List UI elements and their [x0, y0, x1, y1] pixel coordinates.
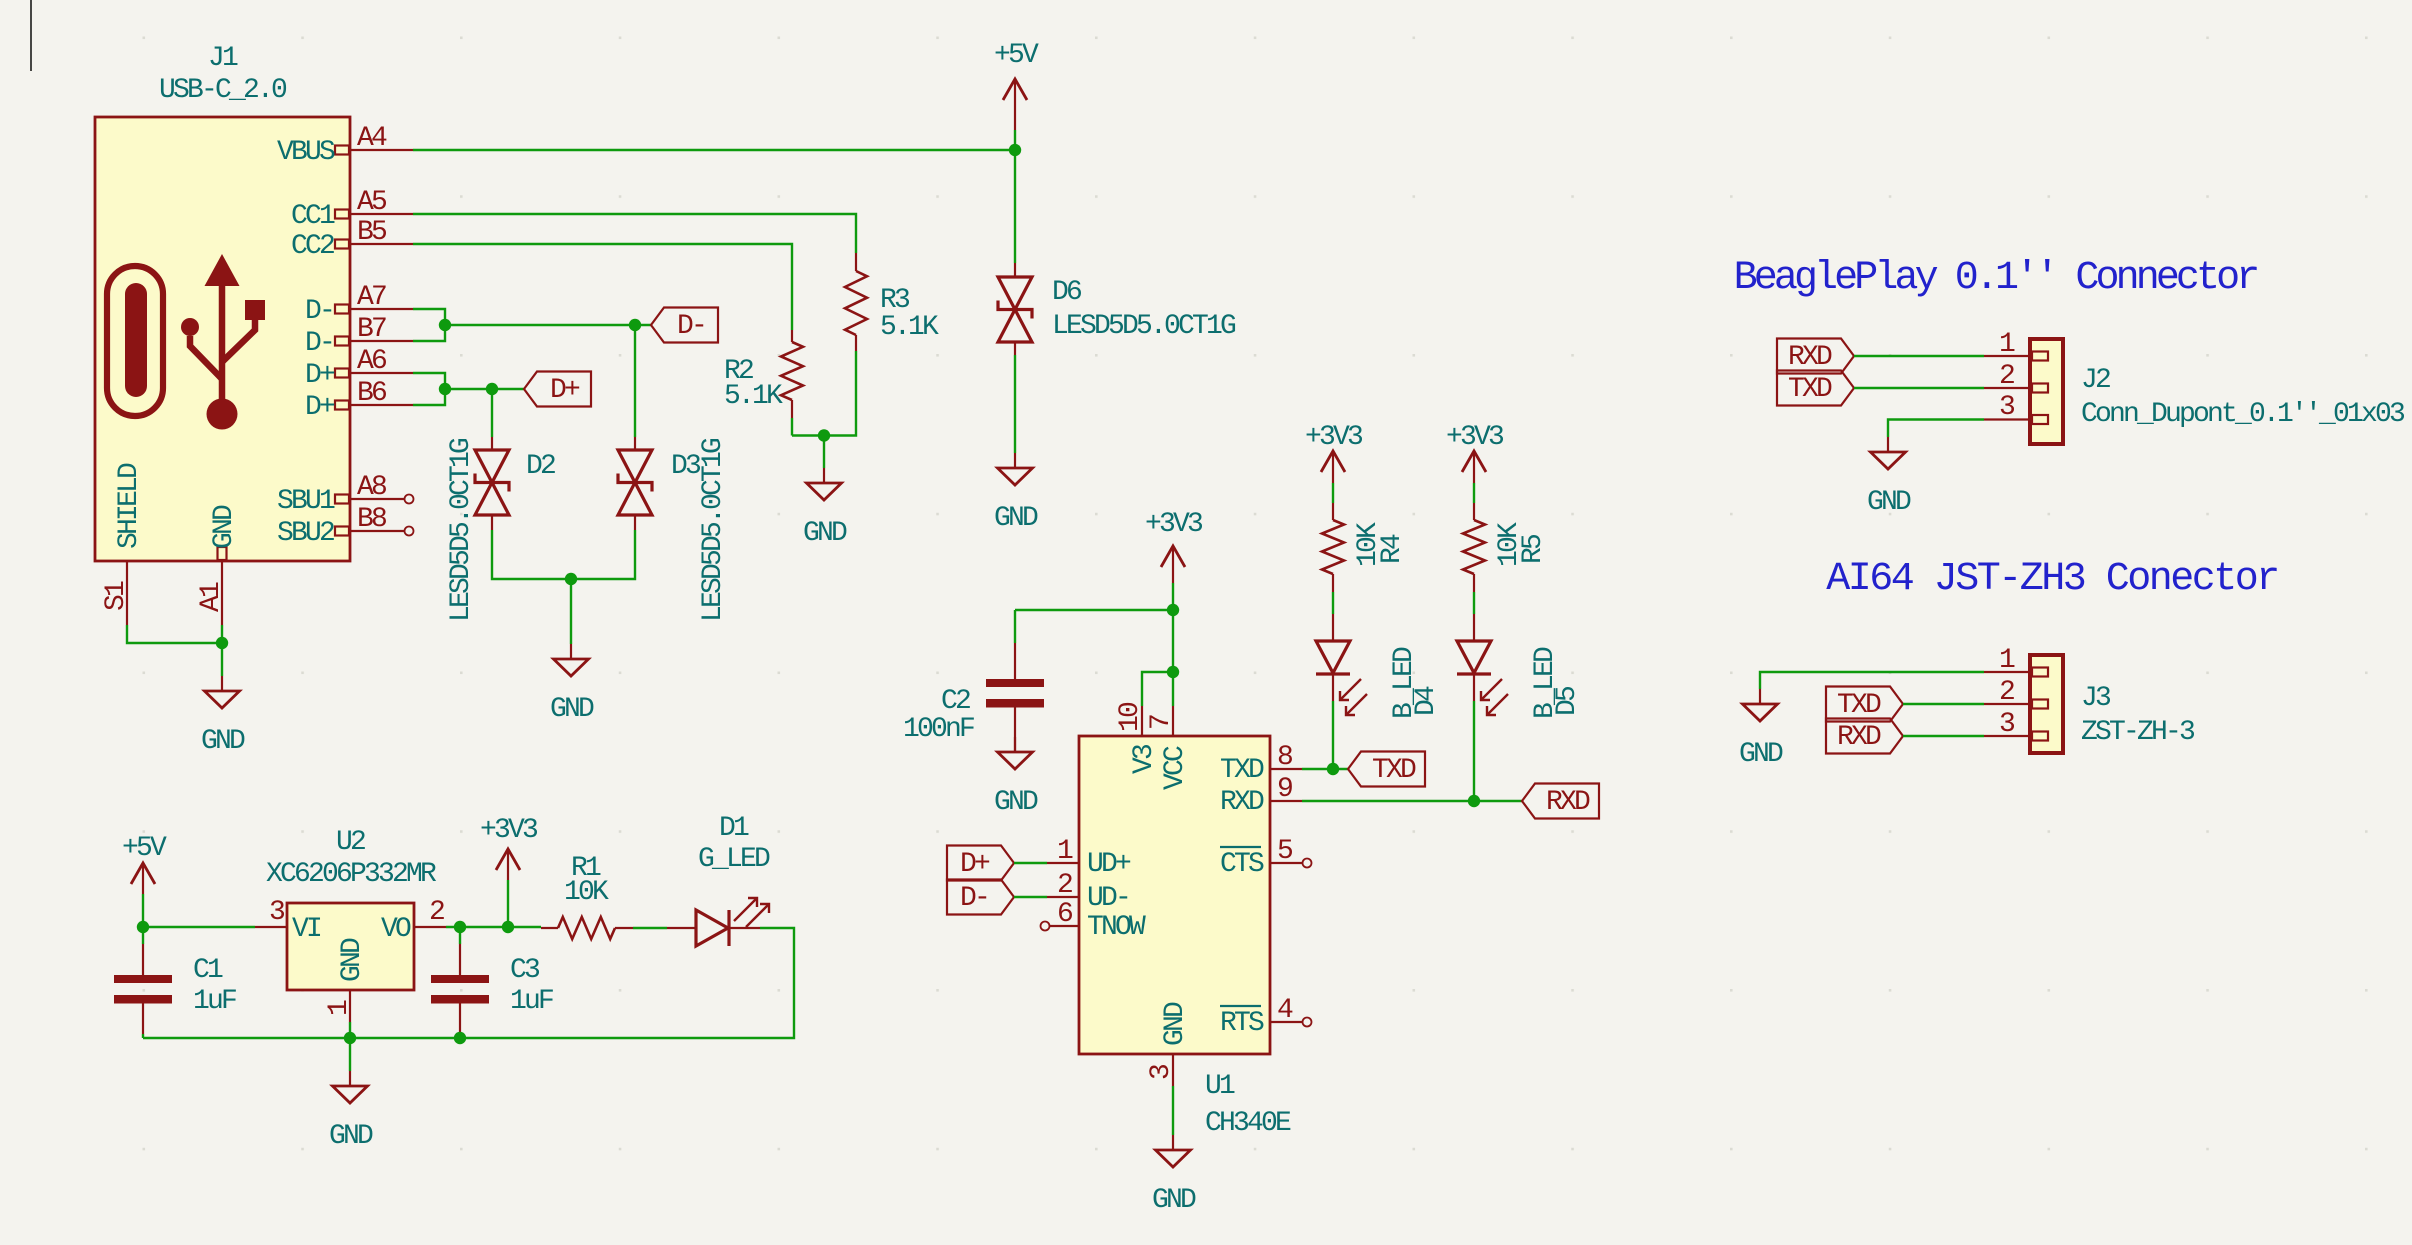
U1 pin 4 RTS (active low)	[1270, 1018, 1312, 1027]
svg-text:GND: GND	[201, 726, 245, 757]
J1 pin A1 GND	[218, 547, 227, 625]
svg-text:RXD: RXD	[1788, 342, 1832, 373]
svg-text:3: 3	[269, 897, 285, 928]
wire RXD pin to label	[1302, 800, 1522, 802]
resistor R1 10K	[541, 917, 633, 939]
svg-text:ZST-ZH-3: ZST-ZH-3	[2081, 717, 2195, 748]
wire TXD to J3 pin 2	[1903, 703, 1984, 705]
svg-text:+3V3: +3V3	[1446, 422, 1504, 453]
wire A6/B6 D+ merge	[413, 373, 445, 405]
svg-text:+5V: +5V	[122, 833, 167, 864]
J1 pin A6 D+	[335, 369, 413, 378]
svg-text:LESD5D5.0CT1G: LESD5D5.0CT1G	[698, 438, 729, 622]
global label TXD at J3	[1826, 687, 1903, 722]
junction C3 rail	[454, 1032, 466, 1044]
svg-text:VCC: VCC	[1160, 746, 1191, 790]
global label RXD at J2	[1777, 339, 1854, 374]
svg-text:BeaglePlay 0.1'' Connector: BeaglePlay 0.1'' Connector	[1734, 256, 2258, 301]
J2 pin 3	[1984, 415, 2048, 424]
svg-text:A6: A6	[357, 346, 386, 377]
resistor R4 10K	[1322, 503, 1344, 592]
wire +5V to D6	[1014, 150, 1016, 263]
U1 pin 5 CTS (active low)	[1270, 859, 1312, 868]
ground symbol below C2	[1014, 737, 1016, 752]
svg-text:2: 2	[429, 897, 444, 928]
svg-text:UD+: UD+	[1087, 849, 1131, 880]
ground symbol below J1	[221, 676, 223, 691]
capacitor C2	[986, 610, 1044, 752]
svg-text:GND: GND	[994, 503, 1038, 534]
junction TXD/D4	[1327, 763, 1339, 775]
global label D+ (left)	[524, 372, 591, 407]
svg-text:TXD: TXD	[1788, 374, 1832, 405]
junction D+ at D2	[486, 383, 498, 395]
U1 pin 10 V3	[1141, 706, 1143, 736]
J2 pin 2	[1984, 384, 2048, 393]
svg-text:D4: D4	[1411, 686, 1442, 716]
J1 pin B8 unconnected circle	[405, 527, 414, 536]
TVS diode D3	[618, 437, 652, 530]
wire RXD to J3 pin 3	[1903, 735, 1984, 737]
svg-text:2: 2	[1999, 361, 2014, 392]
svg-text:C2: C2	[941, 686, 970, 717]
junction R2/R3 ground	[818, 429, 830, 441]
power symbol +3V3 above R5	[1446, 422, 1504, 503]
svg-text:TXD: TXD	[1372, 755, 1416, 786]
U1 pin 9 RXD	[1270, 800, 1302, 802]
svg-text:R4: R4	[1377, 534, 1408, 564]
capacitor C3	[431, 927, 489, 1038]
svg-text:A1: A1	[196, 582, 227, 612]
svg-text:USB-C_2.0: USB-C_2.0	[159, 75, 287, 106]
junction at J1 ground	[216, 637, 228, 649]
USB logo icon	[107, 254, 265, 430]
J1 pin S1 SHIELD	[126, 561, 128, 625]
junction +3V3/C2	[1167, 604, 1179, 616]
junction +3V3 tap	[502, 921, 514, 933]
U2 pin 2 VO	[414, 926, 446, 928]
wire CC2 B5 to R2	[413, 244, 792, 330]
svg-text:3: 3	[1999, 392, 2015, 423]
wire D2 bottom to ground junction	[492, 530, 635, 579]
svg-text:D+: D+	[305, 360, 335, 391]
U1 pin 6 TNOW	[1041, 922, 1080, 931]
svg-text:GND: GND	[803, 518, 847, 549]
svg-text:D-: D-	[305, 328, 333, 359]
svg-text:VBUS: VBUS	[277, 137, 335, 168]
wire CC1 A5 to R3	[413, 214, 856, 253]
svg-text:SHIELD: SHIELD	[114, 463, 145, 549]
svg-text:D-: D-	[677, 311, 705, 342]
svg-text:CC2: CC2	[291, 231, 334, 262]
svg-text:1: 1	[1999, 645, 2015, 676]
J2 pin 1	[1984, 352, 2048, 361]
svg-text:GND: GND	[1739, 739, 1783, 770]
wire U2 GND to rail	[349, 1022, 351, 1071]
J1 pin A8 SBU1	[335, 495, 404, 504]
global label D- into U1	[947, 880, 1014, 915]
svg-text:D-: D-	[305, 296, 333, 327]
ground symbol below U2	[349, 1071, 351, 1086]
svg-text:+3V3: +3V3	[1145, 509, 1203, 540]
svg-text:GND: GND	[1160, 1002, 1191, 1046]
power symbol +5V at regulator input	[122, 833, 167, 927]
svg-text:1: 1	[1999, 329, 2015, 360]
TVS diode D6	[998, 263, 1032, 355]
U1 pin 3 GND	[1172, 1054, 1174, 1086]
svg-text:B8: B8	[357, 504, 386, 535]
svg-text:V3: V3	[1129, 744, 1160, 774]
global label RXD at U1	[1522, 784, 1599, 819]
U1 pin 1 UD+	[1047, 862, 1079, 864]
svg-text:5: 5	[1277, 836, 1293, 867]
resistor R2	[781, 330, 803, 418]
svg-text:1: 1	[1057, 836, 1073, 867]
svg-text:C1: C1	[193, 955, 223, 986]
svg-text:GND: GND	[329, 1121, 373, 1152]
svg-text:S1: S1	[101, 581, 132, 611]
resistor R5 10K	[1463, 503, 1485, 592]
svg-text:D2: D2	[526, 451, 555, 482]
ground symbol at J3	[1759, 689, 1761, 704]
svg-text:J2: J2	[2081, 365, 2110, 396]
J1 pin A7 D-	[335, 305, 413, 314]
ground symbol at J2	[1887, 437, 1889, 452]
svg-text:6: 6	[1057, 899, 1072, 930]
svg-text:10: 10	[1115, 702, 1146, 732]
svg-text:A7: A7	[357, 282, 386, 313]
wire junction to ground	[570, 579, 572, 644]
global label D+ into U1	[947, 846, 1014, 881]
wire RXD to J2 pin 1	[1854, 355, 1984, 357]
junction D- at D3	[629, 319, 641, 331]
ground symbol below U1	[1172, 1135, 1174, 1150]
svg-text:D1: D1	[719, 813, 749, 844]
svg-text:D6: D6	[1052, 277, 1081, 308]
svg-text:1: 1	[324, 1000, 355, 1016]
svg-text:+3V3: +3V3	[480, 815, 538, 846]
svg-text:VO: VO	[381, 914, 411, 945]
svg-text:VI: VI	[292, 914, 321, 945]
svg-text:GND: GND	[337, 938, 368, 982]
J1 pin A5 CC1	[335, 210, 413, 219]
junction +5V/C1/VI	[137, 921, 149, 933]
J1 pin B5 CC2	[335, 240, 413, 249]
J3 pin 3	[1984, 732, 2048, 741]
junction D+ at A6/B6	[439, 383, 451, 395]
svg-text:1uF: 1uF	[193, 986, 236, 1017]
junction C3 tap	[454, 921, 466, 933]
svg-text:TNOW: TNOW	[1087, 912, 1146, 943]
wire D- down to D3	[634, 325, 636, 437]
svg-text:J1: J1	[208, 43, 238, 74]
TVS diode D2	[475, 437, 509, 530]
ground symbol below D2/D3	[570, 644, 572, 659]
wire +3V3 node to C2	[1015, 609, 1173, 611]
svg-text:B7: B7	[357, 314, 386, 345]
svg-text:1uF: 1uF	[510, 986, 553, 1017]
wire D- label to UD-	[1014, 896, 1047, 898]
IC U1 CH340E body	[1079, 736, 1270, 1054]
ground symbol below D6	[1014, 453, 1016, 468]
svg-text:CTS: CTS	[1220, 849, 1264, 880]
IC U2 XC6206P332MR body	[287, 903, 414, 990]
svg-text:B6: B6	[357, 378, 386, 409]
sheet border fragment	[30, 0, 32, 71]
svg-text:RXD: RXD	[1837, 722, 1881, 753]
power symbol +3V3 above R4	[1305, 422, 1363, 503]
svg-text:C3: C3	[510, 955, 540, 986]
svg-text:GND: GND	[1867, 487, 1911, 518]
svg-text:SBU1: SBU1	[277, 486, 335, 517]
svg-text:A5: A5	[357, 187, 387, 218]
svg-text:XC6206P332MR: XC6206P332MR	[266, 859, 437, 890]
svg-text:5.1K: 5.1K	[724, 381, 783, 412]
svg-text:GND: GND	[209, 505, 240, 549]
J1 pin B8 SBU2	[335, 527, 404, 536]
LED D5	[1457, 614, 1508, 715]
power symbol +3V3 at regulator output	[480, 815, 538, 927]
svg-text:LESD5D5.0CT1G: LESD5D5.0CT1G	[1052, 311, 1236, 342]
svg-text:100nF: 100nF	[903, 714, 974, 745]
global label D- (left)	[651, 308, 718, 343]
svg-text:TXD: TXD	[1220, 755, 1264, 786]
svg-text:+3V3: +3V3	[1305, 422, 1363, 453]
J1 pin B6 D+	[335, 401, 413, 410]
connector J2 body	[2030, 339, 2063, 444]
junction D- at A7/B7	[439, 319, 451, 331]
ground symbol below R2/R3	[823, 468, 825, 483]
wire VO to +3V3 and R1	[446, 926, 541, 928]
junction RXD/D5	[1468, 795, 1480, 807]
svg-text:D5: D5	[1552, 686, 1583, 716]
wire down to VCC branch	[1172, 610, 1174, 672]
wire A1 to GND junction	[221, 625, 223, 676]
svg-text:UD-: UD-	[1087, 883, 1129, 914]
wire branch to VCC pin	[1172, 672, 1174, 706]
J1 pin B7 D-	[335, 337, 413, 346]
svg-text:CC1: CC1	[291, 201, 335, 232]
svg-text:3: 3	[1146, 1064, 1177, 1080]
connector J3 body	[2030, 655, 2063, 753]
LED D4	[1316, 614, 1367, 715]
wire D6 to ground	[1014, 355, 1016, 453]
global label RXD at J3	[1826, 719, 1903, 754]
svg-text:10K: 10K	[564, 877, 609, 908]
wire VBUS A4 to +5V rail	[413, 149, 1015, 151]
global label TXD at U1	[1348, 752, 1425, 787]
wire R1 to D1	[633, 927, 667, 929]
connector J1 USB-C_2.0 body	[95, 117, 350, 561]
wire junction down to ground	[823, 436, 825, 469]
svg-text:RXD: RXD	[1546, 787, 1590, 818]
svg-text:AI64 JST-ZH3 Conector: AI64 JST-ZH3 Conector	[1826, 557, 2278, 602]
svg-text:7: 7	[1146, 715, 1177, 730]
junction VBUS/+5V/D6	[1009, 144, 1021, 156]
wire D1 return loop	[143, 928, 794, 1038]
svg-text:J3: J3	[2081, 683, 2111, 714]
wire J2 pin 3 to ground	[1888, 420, 1984, 438]
svg-text:+5V: +5V	[994, 40, 1039, 71]
svg-text:D+: D+	[550, 375, 580, 406]
svg-text:D-: D-	[960, 883, 988, 914]
junction U2 GND rail	[344, 1032, 356, 1044]
U2 pin 3 VI	[255, 926, 287, 928]
wire D+ label to UD+	[1014, 862, 1047, 864]
LED D1	[667, 898, 769, 946]
power symbol +5V (top)	[994, 40, 1039, 150]
capacitor C1	[114, 927, 172, 1038]
svg-text:A4: A4	[357, 123, 387, 154]
resistor R3	[845, 253, 867, 351]
wire A7/B7 D- merge	[413, 309, 445, 341]
svg-text:D3: D3	[671, 451, 701, 482]
svg-text:GND: GND	[1152, 1185, 1196, 1216]
svg-text:GND: GND	[994, 787, 1038, 818]
svg-text:2: 2	[1057, 870, 1072, 901]
U2 pin 1 GND	[349, 990, 351, 1022]
svg-text:G_LED: G_LED	[698, 844, 770, 875]
svg-text:8: 8	[1277, 742, 1292, 773]
svg-text:4: 4	[1277, 995, 1293, 1026]
wire +5V to VI	[143, 926, 255, 928]
svg-text:B5: B5	[357, 217, 387, 248]
J3 pin 1	[1984, 668, 2048, 677]
svg-text:GND: GND	[550, 694, 594, 725]
wire D5 to RXD junction	[1473, 701, 1475, 801]
svg-text:D+: D+	[305, 392, 335, 423]
svg-text:U2: U2	[336, 827, 365, 858]
U1 pin 8 TXD	[1270, 768, 1302, 770]
wire D+ net to label	[445, 388, 524, 390]
wire J3 pin1 to ground	[1760, 672, 1984, 689]
junction D2/D3 ground	[565, 573, 577, 585]
wire R3 bottom to junction	[792, 351, 856, 436]
svg-text:RXD: RXD	[1220, 787, 1264, 818]
svg-text:D+: D+	[960, 849, 990, 880]
svg-text:R5: R5	[1518, 534, 1549, 564]
wire TXD to J2 pin 2	[1854, 387, 1984, 389]
svg-text:RTS: RTS	[1220, 1008, 1264, 1039]
svg-text:Conn_Dupont_0.1''_01x03: Conn_Dupont_0.1''_01x03	[2081, 399, 2405, 430]
wire D+ down to D2	[491, 389, 493, 437]
svg-text:3: 3	[1999, 709, 2015, 740]
svg-text:A8: A8	[357, 472, 386, 503]
wire branch to V3 pin	[1142, 672, 1173, 706]
U1 pin 2 UD-	[1047, 896, 1079, 898]
junction VCC/V3 branch	[1167, 666, 1179, 678]
J3 pin 2	[1984, 700, 2048, 709]
wire R4 to D4	[1332, 592, 1334, 614]
svg-text:9: 9	[1277, 774, 1292, 805]
wire D4 to TXD junction	[1332, 701, 1334, 769]
J1 pin A8 unconnected circle	[405, 495, 414, 504]
wire U1 GND down	[1172, 1086, 1174, 1135]
wire D- net to label	[445, 324, 651, 326]
svg-text:CH340E: CH340E	[1205, 1108, 1291, 1139]
wire TXD pin to label	[1302, 768, 1348, 770]
wire R5 to D5	[1473, 592, 1475, 614]
U1 pin 7 VCC	[1172, 706, 1174, 736]
wire R2 bottom to junction	[791, 418, 793, 436]
svg-text:2: 2	[1999, 677, 2014, 708]
svg-text:U1: U1	[1205, 1071, 1235, 1102]
wire SHIELD to GND junction	[127, 625, 222, 643]
svg-text:SBU2: SBU2	[277, 518, 334, 549]
global label TXD at J2	[1777, 371, 1854, 406]
svg-text:LESD5D5.0CT1G: LESD5D5.0CT1G	[446, 438, 477, 622]
J1 pin A4 VBUS	[335, 146, 413, 155]
power symbol +3V3 above U1	[1145, 509, 1203, 610]
svg-text:5.1K: 5.1K	[880, 312, 939, 343]
svg-text:TXD: TXD	[1837, 690, 1881, 721]
